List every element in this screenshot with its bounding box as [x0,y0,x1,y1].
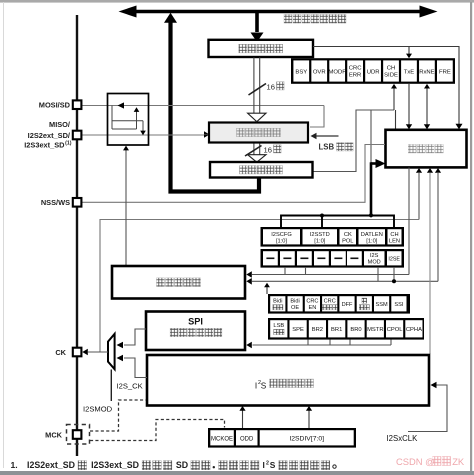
MISO pin [73,131,82,140]
svg-text:[1:0]: [1:0] [366,239,377,245]
svg-text:ODD: ODD [240,437,254,443]
wire RxNE to comm control (double arrow) [426,87,428,126]
wire mux out to CK pin [88,351,108,353]
svg-text:I2SE: I2SE [388,257,400,263]
wire row4 to SPI baud generator line [253,344,392,346]
svg-text:I2SCFG: I2SCFG [271,232,292,238]
svg-text:SPE: SPE [292,327,304,333]
svg-text:CH: CH [387,65,396,71]
wire comm control to CK mux select path [418,173,420,220]
wire comm control to master control logic (lower) [437,173,439,281]
wire comm control to I2S clock generator [429,173,431,354]
CK pin [73,348,82,357]
page top gray bar [0,0,474,3]
wire I2SE to control line [393,267,395,281]
svg-text:SPI: SPI [188,317,203,327]
svg-text:OVR: OVR [313,70,326,76]
svg-text:CRC: CRC [349,65,363,71]
svg-text:[1:0]: [1:0] [276,239,287,245]
svg-text:SSM: SSM [376,302,388,308]
svg-text:MISO/: MISO/ [49,120,70,129]
svg-text:I: I [263,460,265,470]
svg-text:BR1: BR1 [331,327,342,333]
bus 地址和数据总线 [130,10,428,13]
svg-text:SD: SD [176,460,188,470]
svg-text:NSS/WS: NSS/WS [41,198,70,207]
wire rx buffer / CH SIDE / comm control [313,110,395,172]
register row SPI_CR1 (LSB..CPHA) [268,318,424,340]
svg-text:SSI: SSI [394,302,403,308]
register row SPI_I2SCFGR (config bits) [261,227,405,247]
wire bus to tx buffer (thick arrow) [255,13,259,32]
wire TxE to comm control [408,84,410,125]
svg-text:S: S [270,460,276,470]
wire NSS/WS to comm control [82,145,386,203]
mux (clock select) [108,334,115,369]
svg-text:CPOL: CPOL [387,327,404,333]
svg-text:I2S_CK: I2S_CK [117,382,143,391]
svg-text:LSB: LSB [273,323,284,329]
wire mux select I2SMOD [110,370,112,402]
switch internal arrows [118,102,125,108]
box 主控制逻辑 (master control logic) [112,266,245,299]
wire I2SMOD to control line [377,267,379,281]
box I2S 时钟发生器 (I2S clock generator) [147,355,429,406]
wire comm control to master control logic (upper) [408,168,410,275]
svg-text:CRC: CRC [324,299,336,305]
MCK pin [73,430,82,439]
svg-text:BSY: BSY [295,70,307,76]
svg-text:LSB: LSB [319,143,335,152]
svg-text:I2SSTD: I2SSTD [310,232,330,238]
box 发送缓冲区 (Tx buffer) [209,40,314,57]
svg-text:MSTR: MSTR [367,327,383,333]
svg-text:POL: POL [342,239,353,245]
wire row3 up arrow [266,287,268,294]
svg-text:S: S [261,381,267,390]
wire I2SPR to clock generator (right) [308,410,310,428]
svg-text:MODF: MODF [329,70,347,76]
wire I2S_CK to mux [124,358,147,378]
svg-text:Bidi: Bidi [290,299,299,305]
svg-text:LEN: LEN [389,239,400,245]
svg-text:RxNE: RxNE [419,70,434,76]
svg-text:CSDN @: CSDN @ [396,456,435,467]
wire rx buffer to bus (thick arrow) [164,13,177,23]
wire register bracket to comm control (thick arrow) [370,110,372,164]
svg-text:CPHA: CPHA [406,327,422,333]
svg-text:I2SMOD: I2SMOD [83,404,113,413]
svg-text:DFF: DFF [342,302,353,308]
register row SPI_SR flags [291,58,455,84]
svg-text:I2S3ext_SD: I2S3ext_SD [91,460,139,470]
wire MISO line [82,134,205,136]
wire row2 stubs [284,267,286,275]
svg-text:MCKOE: MCKOE [211,437,233,443]
svg-text:OE: OE [291,305,299,311]
wire SPI baud out to mux [124,329,146,345]
svg-text:[1:0]: [1:0] [314,239,325,245]
pin rail [76,15,78,456]
16-bit hollow arrow shift->rx [253,144,255,156]
svg-text:UDR: UDR [367,70,380,76]
box SPI 波特率发生器 (baud rate generator) [146,312,245,351]
svg-text:2: 2 [266,460,269,466]
wire I2SPR to clock generator (left) [242,410,244,428]
svg-text:I2S: I2S [370,253,379,259]
box 通信控制 (communication control) [386,130,467,168]
svg-text:16: 16 [264,146,272,155]
svg-text:1.: 1. [11,460,18,470]
16-bit hollow arrow tx->shift [253,57,255,113]
svg-text:CK: CK [55,348,66,357]
page bottom gray bar [0,471,474,475]
box 移位寄存器 (shift register) [209,123,308,143]
svg-text:ZK: ZK [452,456,465,467]
label LSB 在前 with arrow [311,133,317,140]
svg-text:MCK: MCK [45,430,62,439]
wire MOSI/SD line [82,105,325,107]
page right border [470,2,472,475]
svg-text:(1): (1) [65,140,72,146]
svg-text:16: 16 [267,83,275,92]
register row I2SMOD/I2SE [261,249,405,268]
page left border [3,2,4,468]
register row SPI_I2SPR [208,428,356,448]
svg-text:I2S3ext_SD: I2S3ext_SD [24,140,65,149]
MOSI/SD pin [73,100,82,109]
svg-text:MOSI/SD: MOSI/SD [39,100,71,109]
box 接收缓冲区 (Rx buffer) [210,162,313,178]
svg-text:MOD: MOD [368,260,381,266]
wire master control to switch box [125,150,127,266]
svg-text:Bidi: Bidi [273,299,282,305]
bracket over I2S config register [281,216,394,228]
dashed bracket around MCK pin [67,425,90,445]
slash 16位 (upper) [249,84,267,96]
NSS/WS pin [73,198,82,207]
slash 16位 (lower) [245,146,262,157]
svg-text:CK: CK [344,232,352,238]
svg-text:FRE: FRE [439,70,451,76]
dashed wire MCK to MCKOE [90,420,225,441]
svg-text:BR0: BR0 [350,327,361,333]
svg-text:CRC: CRC [306,299,318,305]
svg-text:SIDE: SIDE [384,73,398,79]
svg-text:I2SDIV[7:0]: I2SDIV[7:0] [289,436,324,443]
svg-text:I2S2ext_SD: I2S2ext_SD [27,460,75,470]
dashed wire MCK to I2S clock generator [90,400,146,431]
svg-text:I2SxCLK: I2SxCLK [387,434,419,443]
svg-text:TxE: TxE [404,70,415,76]
svg-text:CH: CH [390,232,398,238]
wire tx buffer to TxE and comm control [313,47,459,126]
svg-text:BR2: BR2 [312,327,323,333]
label 地址和数据总线 [284,15,346,24]
svg-text:I: I [255,381,257,390]
register row SPI_CR1 (Bidi..SSI) [268,294,410,314]
svg-text:ERR: ERR [349,73,361,79]
wire I2SxCLK input [408,385,447,432]
svg-text:EN: EN [309,305,317,311]
svg-text:DATLEN: DATLEN [361,232,383,238]
switch box (SD routing) [108,94,149,146]
svg-text:I2S2ext_SD/: I2S2ext_SD/ [28,131,70,140]
